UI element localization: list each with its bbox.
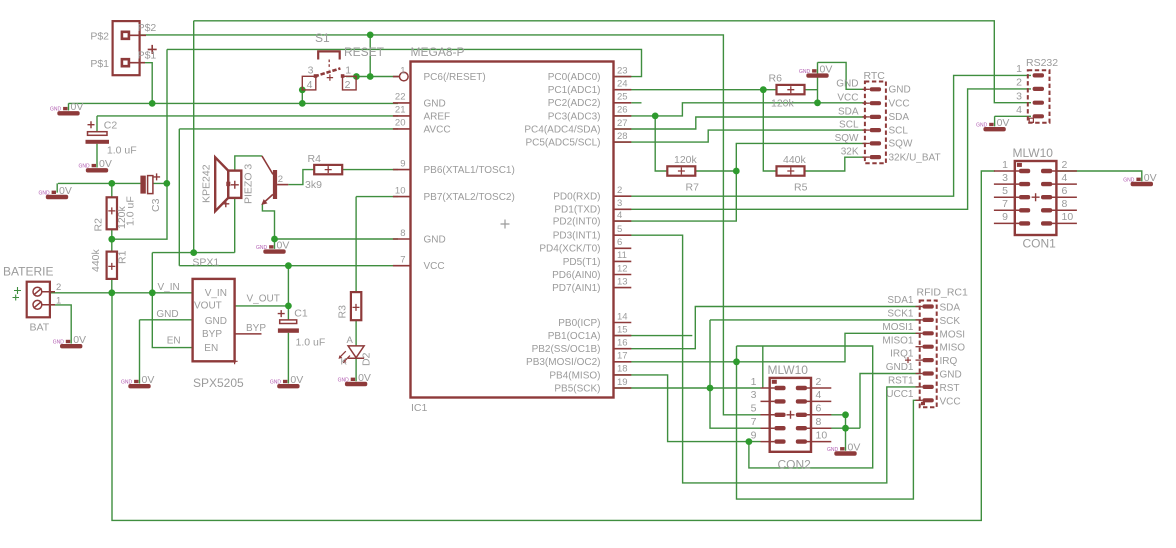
svg-text:9: 9 (1002, 211, 1008, 223)
svg-text:0V: 0V (99, 158, 112, 170)
svg-text:GND: GND (53, 340, 64, 346)
svg-text:GND: GND (79, 164, 91, 170)
svg-text:R6: R6 (769, 72, 783, 84)
svg-text:3: 3 (617, 198, 622, 209)
svg-text:GND: GND (889, 85, 911, 96)
svg-text:2: 2 (617, 185, 622, 196)
svg-text:D2: D2 (361, 352, 373, 366)
svg-text:C2: C2 (104, 120, 118, 132)
svg-text:PC4(ADC4/SDA): PC4(ADC4/SDA) (524, 124, 600, 135)
svg-text:23: 23 (617, 65, 628, 76)
svg-text:6: 6 (617, 237, 622, 248)
svg-text:440k: 440k (90, 248, 102, 272)
svg-text:SCL: SCL (839, 120, 859, 131)
svg-text:16: 16 (617, 338, 628, 349)
svg-text:10: 10 (395, 185, 406, 196)
svg-text:0V: 0V (358, 372, 371, 384)
svg-text:A: A (347, 335, 354, 346)
svg-text:AVCC: AVCC (424, 124, 451, 135)
svg-text:AREF: AREF (424, 111, 451, 122)
svg-text:RESET: RESET (344, 45, 385, 59)
svg-text:PD1(TXD): PD1(TXD) (554, 205, 600, 216)
svg-text:20: 20 (395, 118, 406, 129)
svg-text:PD0(RXD): PD0(RXD) (553, 192, 600, 203)
svg-text:4: 4 (307, 79, 313, 91)
svg-text:3: 3 (1016, 90, 1022, 102)
svg-text:GND: GND (1123, 177, 1135, 183)
svg-text:PC0(ADC0): PC0(ADC0) (548, 72, 601, 83)
svg-text:MISO: MISO (940, 343, 966, 354)
svg-text:11: 11 (617, 250, 627, 261)
svg-text:PD4(XCK/T0): PD4(XCK/T0) (539, 244, 600, 255)
svg-text:120k: 120k (771, 97, 795, 109)
svg-text:GND1: GND1 (886, 362, 914, 373)
svg-text:9: 9 (400, 158, 405, 169)
svg-text:SCK1: SCK1 (887, 309, 914, 320)
svg-text:PB0(ICP): PB0(ICP) (558, 318, 600, 329)
svg-text:0V: 0V (997, 117, 1010, 129)
svg-text:PD5(T1): PD5(T1) (563, 257, 601, 268)
svg-text:R2: R2 (93, 218, 105, 232)
svg-text:0V: 0V (71, 101, 84, 113)
svg-text:0V: 0V (1144, 172, 1157, 184)
svg-text:4: 4 (1016, 104, 1022, 116)
svg-text:3: 3 (1002, 172, 1008, 184)
svg-text:PC5(ADC5/SCL): PC5(ADC5/SCL) (525, 138, 600, 149)
svg-text:2: 2 (1016, 77, 1022, 89)
svg-text:8: 8 (816, 416, 822, 428)
svg-text:4: 4 (617, 210, 622, 221)
svg-text:10: 10 (1062, 211, 1074, 223)
svg-text:GND: GND (256, 245, 268, 251)
svg-text:1: 1 (1002, 159, 1008, 171)
svg-text:SDA: SDA (889, 112, 910, 123)
svg-text:V_IN: V_IN (158, 282, 180, 293)
svg-text:VCC: VCC (889, 98, 910, 109)
svg-text:SCL: SCL (889, 125, 909, 136)
svg-text:MLW10: MLW10 (768, 363, 809, 377)
svg-text:19: 19 (617, 377, 628, 388)
svg-text:S1: S1 (315, 31, 330, 45)
svg-text:GND: GND (976, 123, 988, 129)
svg-text:VOUT: VOUT (194, 301, 222, 312)
svg-text:18: 18 (617, 364, 628, 375)
svg-text:6: 6 (1062, 185, 1068, 197)
svg-text:RST: RST (940, 383, 960, 394)
svg-text:120k: 120k (674, 154, 698, 166)
svg-text:27: 27 (617, 118, 628, 129)
svg-text:GND: GND (338, 377, 350, 383)
svg-text:0V: 0V (820, 63, 833, 75)
svg-text:PB3(MOSI/OC2): PB3(MOSI/OC2) (526, 357, 600, 368)
svg-text:PIEZO 3: PIEZO 3 (243, 164, 255, 204)
svg-text:1: 1 (751, 376, 757, 388)
svg-text:CON2: CON2 (778, 458, 812, 472)
svg-text:R3: R3 (337, 305, 349, 319)
svg-text:IC1: IC1 (411, 402, 428, 414)
svg-text:9: 9 (751, 429, 757, 441)
svg-text:PB6(XTAL1/TOSC1): PB6(XTAL1/TOSC1) (424, 165, 515, 176)
svg-text:V_IN: V_IN (205, 288, 227, 299)
svg-text:17: 17 (617, 351, 628, 362)
svg-text:R4: R4 (308, 153, 322, 165)
svg-text:VCC: VCC (837, 93, 858, 104)
svg-text:5: 5 (617, 224, 622, 235)
svg-text:SQW: SQW (889, 139, 913, 150)
svg-text:3k9: 3k9 (305, 179, 322, 191)
svg-text:1: 1 (345, 65, 351, 77)
svg-text:RTC: RTC (864, 70, 886, 82)
svg-text:6: 6 (816, 403, 822, 415)
svg-text:5: 5 (751, 403, 757, 415)
svg-text:IRQ: IRQ (940, 356, 958, 367)
svg-text:GND: GND (836, 79, 858, 90)
svg-text:EN: EN (204, 343, 218, 354)
svg-text:0V: 0V (277, 239, 290, 251)
svg-text:BAT: BAT (30, 322, 50, 334)
svg-text:CON1: CON1 (1023, 237, 1057, 251)
svg-text:P$2: P$2 (90, 31, 109, 43)
svg-text:0V: 0V (290, 374, 303, 386)
svg-text:2: 2 (345, 79, 351, 91)
svg-text:RS232: RS232 (1026, 57, 1058, 69)
svg-text:22: 22 (395, 92, 406, 103)
svg-text:1: 1 (400, 65, 405, 76)
svg-text:2: 2 (278, 174, 283, 185)
svg-text:PB2(SS/OC1B): PB2(SS/OC1B) (532, 344, 601, 355)
svg-text:PC2(ADC2): PC2(ADC2) (548, 98, 601, 109)
svg-text:32K: 32K (841, 147, 859, 158)
svg-text:28: 28 (617, 131, 628, 142)
svg-text:SQW: SQW (835, 133, 859, 144)
svg-text:PD2(INT0): PD2(INT0) (553, 217, 601, 228)
svg-text:P$2: P$2 (138, 22, 157, 34)
svg-text:GND: GND (424, 234, 446, 245)
svg-text:1.0 uF: 1.0 uF (296, 336, 326, 348)
svg-text:PD3(INT1): PD3(INT1) (553, 231, 601, 242)
svg-text:32K/U_BAT: 32K/U_BAT (889, 152, 941, 163)
svg-text:MEGA8-P: MEGA8-P (411, 45, 465, 59)
svg-text:SPX1: SPX1 (192, 256, 219, 268)
svg-text:SDA1: SDA1 (887, 295, 914, 306)
svg-text:12: 12 (617, 263, 628, 274)
svg-text:PC6(/RESET): PC6(/RESET) (424, 72, 486, 83)
svg-text:7: 7 (751, 416, 757, 428)
svg-text:VCC: VCC (940, 396, 961, 407)
svg-text:P$1: P$1 (90, 58, 109, 70)
svg-text:RFID_RC1: RFID_RC1 (917, 286, 969, 298)
svg-text:SPX5205: SPX5205 (193, 376, 244, 390)
svg-text:BYP: BYP (246, 323, 266, 334)
svg-text:10: 10 (816, 429, 828, 441)
svg-text:PD7(AIN1): PD7(AIN1) (552, 283, 600, 294)
svg-text:1: 1 (56, 295, 61, 306)
svg-text:IRQ1: IRQ1 (890, 349, 914, 360)
svg-text:2: 2 (56, 282, 61, 293)
svg-text:13: 13 (617, 276, 628, 287)
svg-text:GND: GND (940, 370, 962, 381)
svg-text:440k: 440k (783, 154, 807, 166)
svg-text:SDA: SDA (838, 106, 859, 117)
svg-text:GND: GND (50, 107, 62, 113)
svg-text:8: 8 (1062, 198, 1068, 210)
svg-text:GND: GND (827, 447, 839, 453)
svg-text:14: 14 (617, 311, 628, 322)
svg-text:GND: GND (270, 380, 282, 386)
svg-text:0V: 0V (59, 185, 72, 197)
svg-text:8: 8 (400, 228, 405, 239)
svg-text:MOSI1: MOSI1 (882, 322, 914, 333)
svg-text:PD6(AIN0): PD6(AIN0) (552, 270, 600, 281)
svg-text:SDA: SDA (940, 303, 961, 314)
svg-text:RST1: RST1 (888, 376, 914, 387)
svg-text:GND: GND (39, 190, 51, 196)
svg-text:PC1(ADC1): PC1(ADC1) (548, 85, 601, 96)
svg-text:R5: R5 (794, 181, 808, 193)
svg-text:2: 2 (1062, 159, 1068, 171)
svg-text:GND: GND (799, 69, 811, 75)
svg-text:7: 7 (1002, 198, 1008, 210)
svg-text:120k: 120k (116, 205, 128, 229)
svg-text:PC3(ADC3): PC3(ADC3) (548, 111, 601, 122)
svg-text:R7: R7 (686, 181, 700, 193)
svg-text:MLW10: MLW10 (1013, 146, 1054, 160)
svg-text:K: K (341, 357, 348, 368)
svg-text:PB1(OC1A): PB1(OC1A) (548, 331, 601, 342)
svg-text:MISO1: MISO1 (882, 335, 914, 346)
svg-text:3: 3 (308, 65, 314, 77)
svg-text:25: 25 (617, 92, 628, 103)
svg-text:0V: 0V (848, 441, 861, 453)
svg-text:C3: C3 (150, 198, 162, 212)
svg-text:GND: GND (424, 98, 446, 109)
svg-text:2: 2 (816, 376, 822, 388)
svg-text:KPE242: KPE242 (201, 164, 213, 203)
svg-text:MOSI: MOSI (940, 329, 966, 340)
svg-text:GND: GND (156, 309, 178, 320)
svg-text:PB7(XTAL2/TOSC2): PB7(XTAL2/TOSC2) (424, 192, 515, 203)
svg-text:0V: 0V (73, 334, 86, 346)
svg-text:SCK: SCK (940, 316, 961, 327)
svg-text:21: 21 (395, 105, 406, 116)
svg-text:P$1: P$1 (138, 50, 157, 62)
svg-text:C1: C1 (294, 308, 308, 320)
svg-text:UCC1: UCC1 (886, 389, 914, 400)
svg-text:4: 4 (816, 389, 822, 401)
svg-text:EN: EN (167, 335, 181, 346)
svg-text:BATERIE: BATERIE (3, 265, 53, 279)
svg-text:7: 7 (400, 255, 405, 266)
svg-text:V_OUT: V_OUT (247, 294, 280, 305)
svg-text:GND: GND (121, 380, 133, 386)
svg-text:BYP: BYP (202, 329, 222, 340)
svg-text:VCC: VCC (424, 261, 445, 272)
svg-text:26: 26 (617, 105, 628, 116)
svg-text:5: 5 (1002, 185, 1008, 197)
svg-text:1.0 uF: 1.0 uF (107, 145, 137, 157)
svg-text:PB4(MISO): PB4(MISO) (549, 370, 600, 381)
svg-text:3: 3 (751, 389, 757, 401)
svg-text:4: 4 (1062, 172, 1068, 184)
svg-text:24: 24 (617, 79, 628, 90)
svg-text:R1: R1 (117, 250, 129, 264)
svg-text:PB5(SCK): PB5(SCK) (554, 383, 600, 394)
svg-text:1: 1 (1016, 63, 1022, 75)
svg-text:15: 15 (617, 324, 628, 335)
svg-text:0V: 0V (142, 374, 155, 386)
svg-text:GND: GND (205, 316, 227, 327)
